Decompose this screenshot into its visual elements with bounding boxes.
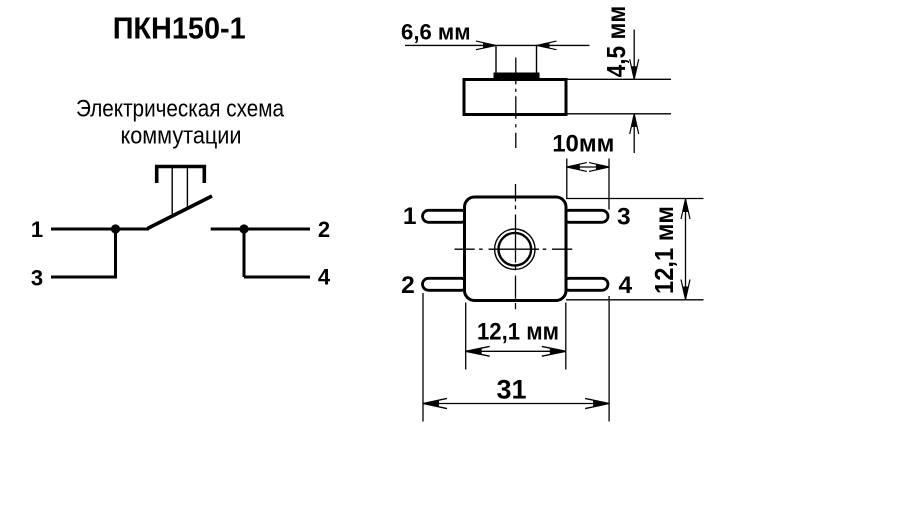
- wire pin 3: [51, 276, 117, 279]
- junction node A: [111, 224, 120, 233]
- extension line 31 right: [608, 296, 610, 422]
- svg-text:6,6 мм: 6,6 мм: [401, 20, 471, 45]
- switch body (side view): [464, 80, 566, 115]
- wire pin 1: [51, 228, 149, 231]
- dimension line 31: [423, 403, 609, 405]
- center line side view: [515, 58, 517, 149]
- dimension line 12,1 right: [685, 199, 687, 300]
- switch lever SA: [148, 196, 213, 229]
- button left edge / extension: [495, 45, 497, 73]
- extension line 12,1 bottom left: [465, 303, 467, 370]
- svg-text:3: 3: [617, 203, 631, 230]
- extension line 12,1 bottom right: [565, 303, 567, 370]
- arrowhead down at body top: [632, 66, 637, 79]
- wire node B down: [243, 229, 246, 277]
- wire pin 2: [211, 228, 310, 231]
- svg-text:12,1 мм: 12,1 мм: [477, 319, 559, 346]
- arrowhead left 12,1 bottom: [466, 349, 482, 355]
- extension line 10mm right: [608, 159, 610, 210]
- actuator left hook: [155, 165, 159, 183]
- arrowhead right 12,1 bottom: [550, 349, 566, 355]
- svg-text:12,1 мм: 12,1 мм: [649, 206, 679, 294]
- svg-text:4: 4: [318, 265, 331, 290]
- dimension line 4,5 upper: [633, 30, 635, 80]
- svg-text:ПКН150-1: ПКН150-1: [113, 11, 246, 46]
- pin 3 (bottom view): [563, 210, 608, 222]
- arrowhead right 10mm: [596, 165, 609, 170]
- push-button actuator bar: [155, 165, 206, 169]
- arrowhead down 12,1 right: [683, 287, 688, 300]
- arrowhead up 12,1 right: [683, 199, 688, 212]
- arrowhead right at button left: [483, 43, 496, 48]
- svg-text:коммутации: коммутации: [121, 123, 242, 150]
- mounting hole inner circle: [499, 233, 532, 266]
- svg-text:31: 31: [496, 375, 526, 405]
- center line vertical (bottom view): [515, 184, 517, 309]
- arrowhead up at body bottom: [632, 114, 637, 127]
- actuator right hook: [203, 165, 207, 183]
- pin 2 (bottom view): [423, 278, 468, 290]
- dimension line 6,6: [405, 44, 590, 46]
- pin 1 (bottom view): [423, 210, 468, 222]
- arrowhead left 31: [423, 401, 439, 407]
- extension line body top: [567, 78, 671, 80]
- svg-text:10мм: 10мм: [552, 130, 614, 157]
- junction node B: [239, 224, 248, 233]
- arrowhead right 31: [593, 401, 609, 407]
- arrowhead left at button right: [537, 43, 550, 48]
- svg-text:4: 4: [618, 272, 632, 299]
- actuator link right: [186, 167, 188, 209]
- svg-text:2: 2: [401, 272, 415, 299]
- actuator link left: [171, 167, 173, 217]
- svg-text:1: 1: [31, 217, 43, 242]
- wire pin 4: [244, 276, 310, 279]
- dimension line 12,1 bottom: [466, 350, 566, 352]
- button right edge / extension: [536, 45, 538, 73]
- button base band: [494, 73, 540, 80]
- svg-text:2: 2: [318, 217, 330, 242]
- extension line 31 left: [422, 293, 424, 422]
- svg-text:3: 3: [31, 266, 43, 291]
- svg-text:1: 1: [403, 203, 417, 230]
- svg-text:4,5 мм: 4,5 мм: [601, 6, 631, 78]
- wire node A down: [114, 229, 117, 277]
- extension line 12,1 right top: [566, 198, 704, 200]
- switch body (bottom view): [465, 197, 567, 301]
- arrowhead left 10mm: [567, 165, 580, 170]
- extension line 12,1 right bottom: [566, 299, 704, 301]
- extension line body bottom: [567, 113, 671, 115]
- center line horizontal (bottom view): [455, 248, 573, 250]
- pin 4 (bottom view): [563, 278, 608, 290]
- dimension line 4,5 lower: [633, 114, 635, 153]
- svg-text:Электрическая схема: Электрическая схема: [76, 96, 285, 123]
- extension line 10mm left: [566, 159, 568, 200]
- mounting hole outer circle: [495, 229, 535, 269]
- dimension double arrow 10mm: [567, 166, 609, 168]
